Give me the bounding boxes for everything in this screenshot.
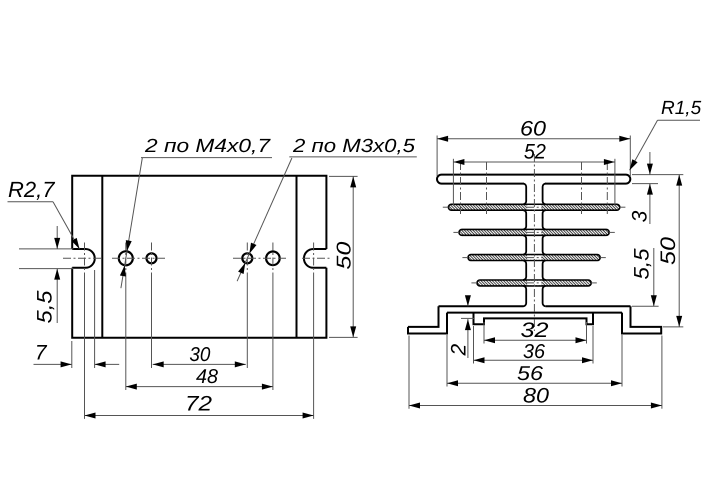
- svg-text:5,5: 5,5: [631, 248, 654, 279]
- svg-text:50: 50: [657, 237, 680, 265]
- svg-text:50: 50: [334, 242, 356, 270]
- svg-text:R2,7: R2,7: [8, 177, 55, 202]
- svg-text:48: 48: [196, 366, 218, 388]
- svg-text:30: 30: [189, 344, 210, 366]
- svg-text:R1,5: R1,5: [661, 98, 702, 119]
- svg-text:5,5: 5,5: [34, 290, 57, 323]
- svg-text:36: 36: [523, 341, 546, 363]
- svg-text:32: 32: [521, 319, 549, 342]
- svg-text:2 по M3x0,5: 2 по M3x0,5: [292, 136, 416, 157]
- svg-text:2: 2: [448, 343, 471, 356]
- svg-text:3: 3: [629, 210, 652, 222]
- svg-text:7: 7: [35, 341, 48, 364]
- svg-text:72: 72: [185, 392, 212, 415]
- svg-text:60: 60: [520, 118, 546, 141]
- svg-text:52: 52: [524, 141, 546, 164]
- svg-text:2 по M4x0,7: 2 по M4x0,7: [144, 136, 272, 157]
- svg-text:56: 56: [517, 363, 544, 385]
- svg-text:80: 80: [523, 385, 549, 408]
